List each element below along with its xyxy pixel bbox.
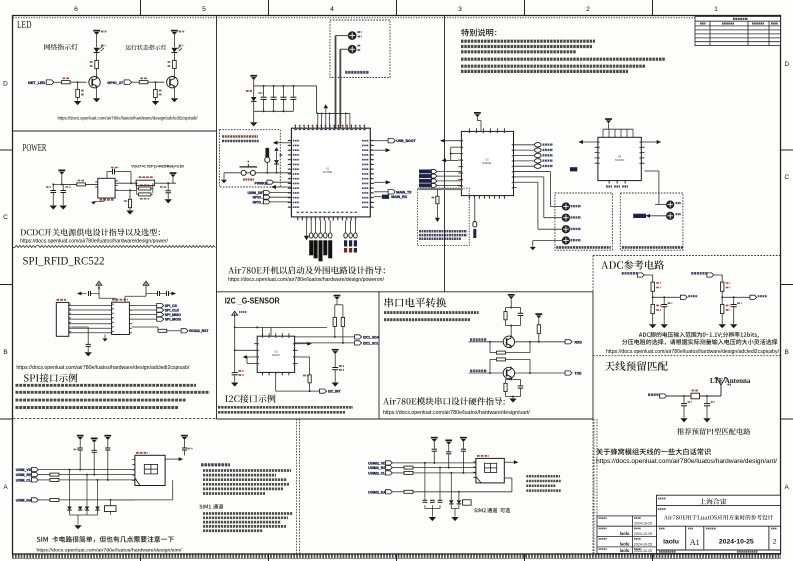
capacitor C71 shunt (683, 396, 685, 403)
RF box label (345, 71, 368, 74)
svg-text:U1: U1 (326, 167, 330, 171)
resistor divider bottom (721, 304, 724, 313)
codec top pins (469, 128, 504, 131)
ground (165, 199, 172, 203)
section title UART level shift (385, 298, 447, 308)
revision table header (733, 18, 748, 20)
net label I2S bus 2 (419, 174, 431, 178)
wire FB node (115, 189, 136, 191)
wire pullup rail (335, 304, 343, 306)
uart guide title (383, 397, 505, 405)
ground sim2 esd 2 (451, 517, 458, 521)
wire speaker in 1 (550, 206, 562, 208)
IC U7 TXB0108PWR (112, 302, 130, 334)
svg-text:2: 2 (773, 539, 777, 546)
SIM connector J7 sim2 (476, 458, 504, 483)
wire antenna rail 2 (700, 395, 721, 397)
SPI notes line4 (16, 406, 179, 409)
wire (77, 97, 79, 100)
wire sim2 clk row + resistor R46 (392, 472, 404, 474)
sheet top inner dotted line (13, 17, 780, 19)
net label SPK (570, 167, 577, 171)
transistor Q4 (167, 77, 178, 88)
resistor divider bottom (651, 304, 654, 313)
ground sensor (265, 372, 267, 375)
resistor R51 (505, 308, 507, 312)
power key note line2 (222, 140, 259, 143)
wire RST row + resistor R41 (38, 474, 49, 476)
zone tick marks bottom (141, 554, 653, 561)
wire sensor left nc (235, 349, 255, 351)
net arrow sim2 (514, 460, 519, 464)
svg-text:2024-10-25: 2024-10-25 (719, 539, 754, 546)
svg-text:NET_LED: NET_LED (28, 81, 46, 85)
capacitor C31 (157, 291, 159, 296)
wire codec left bus (441, 140, 459, 142)
capacitor C2 (273, 86, 275, 97)
resistor divider top (721, 282, 724, 291)
ground IC (103, 200, 105, 203)
svg-text:C: C (785, 174, 790, 181)
module top pins (296, 125, 365, 129)
wire button bottom loop (233, 173, 235, 178)
svg-text:D: D (3, 81, 8, 88)
net label I2C_SCL (355, 341, 362, 345)
svg-text:https://docs.openluat.com/air7: https://docs.openluat.com/air780e/luatos… (58, 116, 199, 122)
inductor L2 2.2uH (115, 182, 136, 184)
sheet bottom hatched band (12, 555, 781, 558)
author cell (659, 528, 665, 530)
ground adc divider (649, 324, 656, 328)
resistor R1 1K (95, 61, 99, 69)
wire U7 supply (98, 299, 100, 303)
wire top rail (235, 326, 327, 328)
svg-text:1: 1 (714, 6, 718, 13)
wire (173, 35, 175, 47)
svg-text:4: 4 (330, 6, 334, 13)
codec left pins (458, 141, 461, 186)
power flag VBAT main (250, 75, 257, 77)
svg-text:USB_BOOT: USB_BOOT (396, 139, 416, 143)
net arrow codec1 (440, 139, 445, 143)
net label RST (181, 329, 188, 333)
capacitor C47 (461, 448, 466, 450)
capacitor C60 22uF input (52, 184, 54, 190)
svg-text:SPI_MISO: SPI_MISO (165, 313, 181, 317)
capacitor C41 (78, 447, 83, 449)
svg-text:LED: LED (17, 20, 32, 31)
wire sim2 data row + resistor R47 (392, 491, 404, 493)
wire ESD to ground (69, 510, 71, 515)
RF test points dashed box (330, 20, 390, 78)
capacitor C42 (92, 449, 97, 451)
net arrow (172, 292, 177, 296)
ESD array D41 TVS (67, 507, 72, 511)
svg-text:TXD: TXD (575, 372, 582, 376)
resistor R12 in audio box (436, 189, 438, 196)
date cell (706, 528, 716, 530)
divider chip-area bottom (217, 291, 594, 293)
svg-text:U4: U4 (618, 155, 622, 159)
net arrow right 1 (374, 149, 385, 151)
amp bottom pins (609, 181, 625, 184)
divider SPI/SIM dashed (13, 418, 217, 420)
svg-text:5: 5 (202, 6, 206, 13)
svg-text:VOUT=0.705*(1+R65/R66)=3.8V: VOUT=0.705*(1+R65/R66)=3.8V (131, 164, 184, 169)
svg-text:Air780E: Air780E (323, 170, 332, 174)
wire stubs down to ESD (69, 470, 71, 507)
ground button (221, 180, 227, 183)
resistor R6 10K pulldown (154, 82, 156, 89)
ground sim2 esd (429, 517, 436, 521)
wire DATA row + resistor R43 (38, 499, 49, 501)
wire (98, 288, 100, 296)
ground adc cap (661, 324, 668, 328)
wire esd gnd sim2 (424, 505, 426, 508)
svg-text:3: 3 (458, 6, 462, 13)
wire speaker in 3 (538, 228, 563, 230)
SIM1 channel title (199, 505, 211, 509)
revision table (695, 17, 781, 46)
wire stubs down sim2 (424, 463, 426, 500)
note line6 (461, 70, 628, 73)
section title ADC (601, 260, 664, 269)
uart notes line2 (384, 318, 470, 321)
net stub adc (680, 295, 687, 299)
I2C notes line1 (218, 406, 353, 409)
ADC box dashed border (593, 255, 781, 257)
capacitor adc filter (663, 297, 665, 304)
power flag VSIM near connector (181, 435, 188, 437)
resistor R31 RST (132, 326, 158, 328)
capacitor C63 22uF out (167, 183, 169, 190)
svg-text:MAIN_TX: MAIN_TX (396, 190, 412, 194)
I2C interface note title (225, 394, 275, 402)
svg-text:2024-10-25: 2024-10-25 (634, 522, 652, 526)
wire q52 emitter (506, 378, 521, 380)
capacitor C45 (432, 448, 437, 450)
codec right pins (514, 145, 517, 188)
power flag VIN (58, 170, 65, 172)
wire amp to mic box (645, 170, 659, 172)
company name (700, 498, 727, 504)
svg-text:ES8311: ES8311 (482, 161, 492, 165)
ground arrow bottom (306, 221, 308, 236)
mic box label (622, 246, 683, 249)
capacitor C43 (105, 447, 110, 449)
resistor R53 feedback (480, 342, 482, 351)
wire (96, 35, 98, 47)
ground C72 (703, 418, 710, 422)
ground uart (509, 399, 516, 403)
net label I2S bus 4 (419, 183, 431, 187)
capacitor C33 under (87, 327, 89, 344)
svg-text:DA267: DA267 (272, 353, 280, 357)
wire rx out (510, 348, 512, 354)
divider chip-area right vertical (444, 16, 446, 292)
poweron guide title (228, 266, 385, 274)
wire scl (295, 342, 355, 344)
RF connector J1 main antenna (348, 32, 356, 40)
wire data loop sim2 (511, 478, 513, 492)
capacitor C44 (182, 447, 187, 449)
net label I2S bus 1 (419, 170, 431, 174)
SPI notes line2 (16, 391, 210, 394)
uart notes line1 (384, 311, 479, 314)
antenna pi note (677, 428, 750, 435)
net arrow amp out (657, 140, 662, 144)
ground adc divider (719, 324, 726, 328)
wire amp input left (579, 141, 595, 143)
sensor right pins (295, 344, 298, 364)
wire bus J3 to U7 (71, 305, 109, 307)
capacitor C4 (292, 86, 294, 97)
svg-text:B: B (785, 349, 789, 356)
capacitors esd sim2 row1 (423, 499, 428, 501)
resistor R22 pullup SCL (341, 317, 344, 326)
power flag VCC3.3 (96, 281, 102, 288)
resistor R2 4.7K base (62, 81, 71, 84)
resistor R67 (139, 193, 151, 196)
net label ANT (648, 393, 660, 396)
ground (152, 101, 159, 105)
note line1 (461, 40, 595, 43)
net arrow sensor (243, 355, 247, 359)
label network indicator (44, 44, 78, 50)
net label MIC (633, 214, 646, 218)
wire adc in (644, 274, 653, 276)
resistor R54 feedback 2 (497, 358, 506, 361)
wire emitter to ground (173, 89, 175, 98)
resistor R66 to gnd (129, 190, 131, 199)
wire output rail (155, 182, 176, 184)
codec bottom test pad (474, 199, 476, 221)
capacitor C9 vertical dark (265, 148, 269, 158)
SPI interface note title (24, 373, 77, 382)
net label ADC0 (622, 272, 638, 275)
wire SIM VCC right (165, 458, 178, 460)
net arrow pwrkey (273, 141, 278, 145)
RF trace wires to module (335, 36, 337, 129)
sensor top pins (263, 333, 289, 336)
net label ADC1 (691, 272, 707, 275)
capacitor C21 (232, 372, 238, 374)
wire pwrkey row (272, 142, 274, 144)
wire sim2 vdd row (392, 462, 476, 464)
svg-text:LTE Antenna: LTE Antenna (710, 377, 751, 385)
capacitor C32 (166, 291, 168, 296)
wire node (721, 291, 723, 304)
net arrow (179, 457, 184, 461)
size cell (688, 528, 693, 530)
speaker dashed box (555, 193, 613, 250)
wire input rail (61, 175, 63, 185)
antenna symbol (720, 385, 722, 396)
wire base (148, 81, 164, 83)
ground 2 (97, 515, 99, 519)
svg-text:I2C _G-SENSOR: I2C _G-SENSOR (225, 296, 281, 306)
wire codec left vertical (450, 147, 452, 160)
zone tick marks left (0, 150, 13, 419)
divider I2C/UART vertical (378, 292, 380, 419)
resistor R23 INT pulldown (308, 375, 311, 383)
svg-text:NS4150: NS4150 (615, 158, 625, 162)
ground C21 (231, 383, 238, 387)
audio note dashed box (417, 188, 469, 245)
svg-text:https://docs.openluat.com/air7: https://docs.openluat.com/air780e/luatos… (20, 238, 169, 244)
wire (145, 288, 147, 296)
wire join base (506, 325, 521, 327)
antenna knowledge note (596, 448, 711, 455)
svg-text:SPI_MOSI: SPI_MOSI (165, 318, 181, 322)
ground U7 (104, 335, 106, 339)
wire sensor bottom (275, 375, 277, 391)
capacitor C3 (283, 86, 285, 97)
svg-text:2024-10-25: 2024-10-25 (634, 549, 652, 553)
SIM bottom note (37, 536, 174, 543)
svg-text:https://docs.openluat.com/air7: https://docs.openluat.com/air780e/luatos… (37, 548, 183, 553)
wire cap bank bottom rail (254, 110, 294, 112)
I2C notes line2 (218, 411, 345, 414)
page cell (771, 528, 777, 530)
ground ESD (74, 525, 81, 529)
svg-text:A: A (785, 484, 790, 491)
speaker jack J5 (562, 203, 569, 210)
wire button to ground (223, 173, 225, 180)
divider mid bottom solid (217, 418, 594, 420)
SIM1 channel notes (203, 512, 293, 515)
net arrow sensor right (298, 343, 307, 345)
svg-text:6: 6 (74, 6, 78, 13)
amp left pins (595, 142, 598, 163)
wire vdd rail left (234, 318, 236, 372)
wire to net label (309, 383, 311, 391)
power flag VBAT 4 (171, 30, 178, 32)
test pads USB and uart (310, 221, 312, 233)
net arrow right 2 (386, 180, 391, 184)
svg-text:https://docs.openluat.com/air7: https://docs.openluat.com/air780e/luatos… (16, 365, 189, 371)
svg-text:SPI_CLK: SPI_CLK (165, 308, 180, 312)
speaker box label (556, 246, 611, 249)
ground arrow audio (435, 218, 440, 222)
resistor R55 (505, 379, 507, 383)
ground (93, 98, 100, 102)
capacitor bank C1 (263, 86, 265, 97)
svg-text:I2C1_SCL: I2C1_SCL (363, 341, 379, 345)
ground (74, 101, 81, 105)
ground C22 (332, 383, 339, 387)
SIM2 channel label (474, 508, 486, 512)
SIM box right dashed double line (296, 419, 298, 554)
ground C44 (184, 456, 186, 460)
wire amp top rail (603, 128, 633, 130)
net arrow codec2 (441, 158, 446, 162)
power flag VSIM bank (77, 435, 84, 437)
power flag VBAT uart1 (508, 294, 515, 296)
resistor R21 pullup SDA (333, 317, 336, 326)
note line5 (461, 65, 645, 68)
ADC/antenna dotted divider (593, 355, 781, 357)
ground C71 (680, 418, 687, 422)
svg-text:B: B (3, 349, 7, 356)
net label I2C_SDA (355, 335, 362, 339)
capacitor C51 (520, 308, 522, 314)
zone tick marks top (141, 0, 653, 16)
svg-text:POWER: POWER (23, 143, 47, 154)
module left pins (288, 141, 292, 208)
resistor R65 (139, 187, 151, 190)
svg-text:https://docs.openluat.com/air7: https://docs.openluat.com/air780e/luatos… (596, 459, 777, 465)
ground speaker return (530, 247, 536, 250)
module bottom pins (298, 217, 356, 221)
ground (171, 98, 178, 102)
ground (85, 352, 92, 356)
wire (96, 69, 98, 77)
wire tx out (515, 372, 565, 374)
net label USB_BOOT (374, 140, 388, 142)
net label GSENSOR_INT (320, 389, 327, 393)
wire VSIM row (38, 469, 135, 471)
divider UART right vertical (592, 292, 594, 419)
wire DATA loop to connector (134, 499, 136, 501)
wire uart tx in (469, 372, 504, 374)
capacitor adc filter (733, 297, 735, 304)
power key dashed box (219, 130, 280, 187)
svg-text:MAIN_RX: MAIN_RX (391, 195, 407, 199)
USIM pin notes (203, 469, 291, 472)
wire VBAT rail (254, 85, 317, 87)
capacitor C61 100nF input (62, 184, 64, 190)
SIM connector J4 (135, 455, 165, 485)
IC U4 audio amplifier (598, 137, 641, 180)
wire emitter to ground (96, 89, 98, 98)
wire INT1 (298, 356, 310, 358)
wire to ground (652, 314, 654, 324)
RF connector J2 GPS antenna (348, 45, 356, 53)
sheet title (664, 515, 773, 520)
net labels SPI out (132, 305, 157, 307)
resistor R4 1K (173, 61, 177, 69)
power flags sim2 cap bank (431, 437, 438, 439)
sim2 notes (526, 475, 560, 478)
wire uart rx in (469, 341, 504, 343)
wire base (70, 81, 86, 83)
IC U6 DCDC JW5209 (98, 178, 115, 198)
capacitor C46 (446, 451, 451, 453)
SPI notes line1 (16, 384, 197, 387)
power flag VDD 2 (332, 349, 339, 351)
power flag VBAT 1 (93, 30, 100, 32)
approvals table (597, 516, 657, 554)
svg-text:https://docs.openluat.com/air7: https://docs.openluat.com/air780e/luatos… (606, 349, 779, 355)
svg-text:U5: U5 (485, 158, 489, 162)
USIM pin note title (201, 463, 230, 466)
svg-text:A1: A1 (690, 538, 700, 547)
svg-text:A: A (3, 484, 8, 491)
antenna box left dashed (592, 419, 594, 554)
power flag VDD_EXT (232, 311, 238, 318)
ground (50, 206, 57, 210)
wire VBAT feed to module pins (316, 86, 318, 114)
adc note line1 (639, 332, 759, 338)
wire codec to speaker box (517, 171, 551, 173)
wire split (506, 307, 521, 309)
resistor R52 (537, 325, 540, 334)
IC U5 audio codec ES8311 (461, 131, 513, 195)
zone tick marks right (781, 150, 793, 419)
svg-text:D: D (785, 61, 790, 68)
divider left column vertical (216, 16, 218, 420)
